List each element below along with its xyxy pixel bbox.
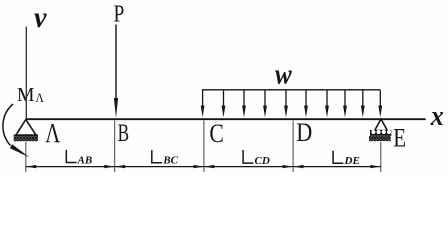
svg-text:Λ: Λ bbox=[36, 91, 44, 105]
dimension label L_CD bbox=[243, 150, 270, 167]
point load P label bbox=[114, 2, 125, 28]
dimension arrows at D bbox=[283, 165, 304, 168]
extension line at A bbox=[25, 142, 27, 172]
extension line at C bbox=[203, 120, 205, 172]
extension line at D bbox=[292, 120, 294, 172]
moment M_A label bbox=[17, 84, 44, 106]
svg-text:BC: BC bbox=[162, 155, 178, 167]
distributed load w label bbox=[275, 60, 292, 91]
svg-text:P: P bbox=[114, 2, 125, 28]
svg-text:CD: CD bbox=[255, 155, 270, 167]
extension line at B bbox=[114, 120, 116, 172]
v axis line bbox=[25, 27, 27, 119]
svg-text:AB: AB bbox=[77, 154, 93, 166]
dimension arrows at A bbox=[26, 165, 36, 168]
dimension line bbox=[26, 166, 381, 168]
node label D bbox=[296, 118, 312, 147]
dimension label L_AB bbox=[66, 150, 92, 167]
svg-text:v: v bbox=[34, 1, 47, 34]
svg-text:x: x bbox=[430, 101, 444, 132]
node label B bbox=[118, 118, 130, 147]
dimension label L_DE bbox=[333, 151, 360, 167]
svg-text:B: B bbox=[118, 118, 130, 147]
svg-text:M: M bbox=[17, 84, 35, 106]
svg-text:D: D bbox=[296, 118, 312, 147]
svg-text:DE: DE bbox=[344, 155, 360, 167]
v axis label bbox=[34, 1, 47, 34]
node label C bbox=[209, 118, 224, 148]
svg-text:C: C bbox=[209, 118, 224, 148]
dimension arrows at C bbox=[194, 165, 215, 168]
svg-text:w: w bbox=[275, 60, 292, 91]
extension line at E bbox=[380, 142, 382, 172]
svg-text:E: E bbox=[393, 124, 406, 153]
svg-text:Λ: Λ bbox=[45, 118, 60, 148]
dimension arrow at E bbox=[370, 165, 380, 168]
beam (x axis) bbox=[26, 118, 426, 120]
point load P arrow bbox=[114, 25, 118, 119]
node label E bbox=[393, 124, 406, 153]
distributed load arrows bbox=[201, 90, 383, 118]
dimension arrows at B bbox=[104, 165, 125, 168]
pin support A bbox=[14, 120, 38, 142]
moment M_A arc arrow bbox=[3, 104, 30, 158]
distributed load w top line bbox=[202, 89, 380, 91]
roller support E bbox=[369, 119, 391, 141]
x axis label bbox=[430, 101, 444, 132]
node label A bbox=[45, 118, 60, 148]
dimension label L_BC bbox=[152, 150, 179, 167]
